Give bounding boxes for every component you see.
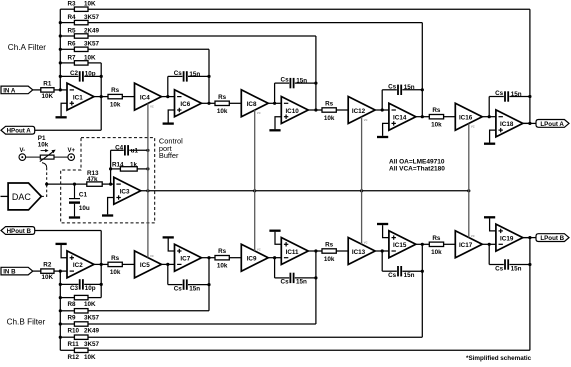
- wire: Ch.B first feedback vertical (HPout B to IC2 output, C3, R8): [100, 231, 103, 298]
- svg-text:10K: 10K: [84, 354, 96, 361]
- wire: IC12 output to IC14 inverting input: [375, 108, 389, 111]
- wire: R8 feedback row: [88, 297, 101, 299]
- wire: R1 to IC1 inverting input: [54, 89, 67, 91]
- ground (IC2 non-inverting input): [56, 243, 68, 258]
- wire: control node to R13: [47, 183, 87, 186]
- junction dots on Ch.A summing bus: [59, 21, 62, 92]
- resistor Rs 10k (Ch.A stage 3): [316, 101, 336, 122]
- resistor R2 10K: [41, 262, 54, 282]
- svg-text:Rs: Rs: [325, 101, 334, 108]
- wire: Ch.B stage 3 feedback vertical (IC15 output to ladder): [421, 244, 423, 337]
- wire: IC6 output to feedback vertical: [201, 102, 210, 105]
- svg-text:R4: R4: [68, 14, 77, 21]
- svg-text:10k: 10k: [324, 256, 335, 263]
- wire: Cs left vertical at IC15 input: [381, 251, 383, 271]
- svg-text:HPout A: HPout A: [7, 128, 32, 135]
- wire: VCA control vertical to IC8/IC9: [254, 110, 256, 251]
- wire: Ch.A summing bus vertical (IC1 inverting node): [59, 9, 61, 90]
- svg-text:vc: vc: [364, 118, 368, 122]
- svg-text:Cs: Cs: [174, 70, 183, 77]
- resistor R9 3K57 (Ch.B feedback ladder): [60, 309, 99, 322]
- wire: IC18 output to LPout A: [523, 122, 536, 124]
- svg-text:IC13: IC13: [352, 249, 366, 256]
- svg-text:R11: R11: [68, 341, 80, 348]
- svg-text:Ch.B Filter: Ch.B Filter: [7, 318, 46, 327]
- wire: R7 feedback row: [88, 62, 101, 64]
- capacitor Cs 15n (IC15 integrator): [382, 266, 422, 279]
- junction: Cs into Ch.B stage 2 feedback vertical: [314, 276, 317, 279]
- capacitor C2 10p (IC1 feedback): [60, 70, 101, 82]
- wire: Rs to IC4 input: [122, 96, 134, 98]
- dashed box: control port buffer boundary: [61, 138, 155, 223]
- wire: IC17 output to IC19 inverting input: [482, 243, 496, 246]
- op-amp IC2 (LME49710 summing amp): [67, 251, 94, 278]
- svg-text:Rs: Rs: [432, 235, 441, 242]
- svg-text:15n: 15n: [404, 84, 415, 91]
- svg-text:R6: R6: [68, 41, 77, 48]
- resistor R5 2K49 (Ch.A feedback ladder): [60, 27, 99, 38]
- resistor R10 2K49 (Ch.B feedback ladder): [60, 322, 99, 335]
- svg-text:V-: V-: [19, 148, 25, 154]
- svg-text:Buffer: Buffer: [159, 151, 179, 160]
- svg-text:V+: V+: [67, 148, 75, 154]
- wire: R13 to IC3 inverting input: [102, 183, 114, 186]
- wire: stage 2 feedback vertical (ladder to IC10 output): [315, 36, 317, 110]
- junction: Cs into Ch.B stage 4 feedback vertical: [528, 263, 531, 266]
- capacitor C4 u1: [111, 144, 148, 155]
- svg-text:C1: C1: [79, 192, 88, 199]
- resistor R12 10K (Ch.B feedback ladder): [60, 348, 96, 361]
- svg-text:Rs: Rs: [111, 255, 120, 262]
- svg-text:vc: vc: [257, 247, 261, 251]
- op-amp IC1 (LME49710 summing amp): [67, 83, 94, 110]
- svg-text:vc: vc: [150, 104, 154, 108]
- svg-text:15n: 15n: [404, 272, 415, 279]
- svg-text:IC15: IC15: [393, 242, 407, 249]
- Control port Buffer label: [159, 137, 183, 160]
- ground (C1): [69, 216, 80, 218]
- svg-text:vc: vc: [150, 254, 154, 258]
- input port IN A: [1, 86, 33, 94]
- op-amp IC3 (control buffer): [114, 177, 141, 204]
- svg-text:IN A: IN A: [3, 87, 16, 94]
- svg-text:LPout B: LPout B: [540, 235, 564, 242]
- wire: IC19 output to LPout B: [523, 237, 536, 239]
- op-amp IC14 (LME49710 integrator): [389, 103, 416, 130]
- wire: R2 to IC2 inverting input: [54, 270, 67, 272]
- wire: IC4 output to IC6 inverting input: [161, 95, 174, 98]
- svg-text:15n: 15n: [296, 78, 307, 85]
- svg-text:47k: 47k: [87, 176, 98, 183]
- svg-text:R14: R14: [112, 161, 124, 168]
- wire: IC2 output to Rs, junction at feedback vertical: [94, 263, 108, 266]
- capacitor Cs 15n (IC18 integrator): [489, 90, 530, 102]
- svg-text:10k: 10k: [431, 249, 442, 256]
- svg-text:IC3: IC3: [120, 189, 130, 196]
- capacitor Cs 15n (IC7 integrator): [168, 279, 209, 292]
- wire: IN B to R2: [33, 270, 41, 272]
- wire: Rs to next VCA: [336, 109, 348, 111]
- svg-text:IC16: IC16: [459, 115, 473, 122]
- ground (IC14 non-inverting input): [377, 123, 389, 138]
- wire: P1 wiper (dashed) to DAC node: [42, 163, 47, 185]
- svg-text:Rs: Rs: [432, 107, 441, 114]
- wire: R12 feedback row: [88, 349, 530, 351]
- ground (IC19 non-inverting input): [484, 216, 496, 231]
- junction: Cs into Ch.B stage 3 feedback vertical: [421, 270, 424, 273]
- svg-text:R1: R1: [43, 80, 52, 87]
- capacitor Cs 15n (IC19 integrator): [489, 259, 530, 272]
- wire: VCA control vertical to IC4/IC5: [147, 103, 149, 257]
- svg-text:Cs: Cs: [388, 83, 397, 90]
- wire: IC10 output to feedback vertical: [308, 108, 317, 111]
- ground (IC10 non-inverting input): [269, 117, 281, 132]
- output port LPout B: [536, 234, 569, 242]
- svg-text:Cs: Cs: [495, 265, 504, 272]
- wire: Ch.B summing bus vertical (IC2 inverting node): [59, 271, 61, 350]
- wire: IC1 output to Rs, junction at feedback vertical: [94, 95, 108, 98]
- resistor R4 3K57 (Ch.A feedback ladder): [60, 14, 99, 25]
- op-amp IC10 (LME49710 integrator): [281, 97, 308, 124]
- wire: R6 feedback row: [88, 48, 209, 50]
- svg-text:10k: 10k: [110, 269, 121, 276]
- output port HPout A: [1, 126, 35, 134]
- ground (IC11 non-inverting input): [269, 230, 281, 245]
- svg-text:10k: 10k: [324, 115, 335, 122]
- wire: IC7 output to feedback vertical: [201, 256, 210, 259]
- op-amp IC7 (LME49710 integrator): [175, 244, 202, 271]
- resistor Rs 10k (Ch.B stage 2): [209, 248, 229, 269]
- svg-text:Rs: Rs: [325, 242, 334, 249]
- svg-text:All OA=LME49710: All OA=LME49710: [389, 159, 445, 166]
- annotation: simplified schematic note: [466, 355, 532, 362]
- wire: Rs to next VCA: [229, 102, 241, 104]
- svg-text:15n: 15n: [511, 265, 522, 272]
- wire: VCA control vertical to IC16/IC17: [468, 124, 470, 238]
- node: control summing node: [45, 183, 48, 186]
- ground (IC6 non-inverting input): [163, 110, 175, 125]
- wire: R11 feedback row: [88, 336, 422, 338]
- svg-text:vc: vc: [471, 234, 475, 238]
- wire: IC5 output to IC7 inverting input: [161, 263, 174, 266]
- svg-text:R3: R3: [68, 1, 77, 8]
- svg-text:Cs: Cs: [281, 77, 290, 84]
- wire: IC18 output to feedback vertical: [523, 122, 532, 125]
- svg-text:IC7: IC7: [180, 256, 190, 263]
- svg-text:10u: 10u: [79, 205, 90, 212]
- svg-text:vc: vc: [471, 125, 475, 129]
- resistor R14 1k: [111, 161, 148, 171]
- wire: stage 1 feedback vertical (ladder to IC6 output): [208, 49, 210, 103]
- terminal V- (P1 CCW end): [19, 148, 26, 160]
- svg-text:10K: 10K: [84, 54, 96, 61]
- capacitor Cs 15n (IC10 integrator): [275, 77, 316, 89]
- wire: IC19 output to feedback vertical: [523, 236, 532, 239]
- wire: R10 feedback row: [88, 323, 316, 325]
- svg-text:Ch.A Filter: Ch.A Filter: [8, 43, 46, 52]
- junction dots on Ch.B summing bus: [59, 270, 62, 339]
- DAC block: [8, 183, 41, 210]
- resistor R7 10K (Ch.A feedback ladder): [60, 54, 96, 65]
- wire: Cs left vertical at IC18 input: [488, 97, 490, 117]
- output port HPout B: [1, 227, 35, 235]
- op-amp IC6 (LME49710 integrator): [175, 90, 202, 117]
- VCA IC12 (That2180): [348, 97, 375, 124]
- resistor R1 10K: [41, 80, 54, 100]
- wire: IC15 output to feedback vertical: [416, 243, 424, 246]
- annotation: device types: [389, 159, 445, 173]
- op-amp IC18 (LME49710 integrator): [496, 110, 523, 137]
- svg-text:15n: 15n: [511, 91, 522, 98]
- wire: IC8 output to IC10 inverting input: [268, 102, 281, 105]
- wire: Ch.B stage 2 feedback vertical (IC11 output to ladder): [315, 251, 317, 324]
- resistor Rs 10k (Ch.B stage 3): [316, 242, 336, 263]
- wire: Ch.B stage 4 feedback vertical (IC19 output to ladder): [529, 238, 531, 351]
- op-amp IC15 (LME49710 integrator): [389, 231, 416, 258]
- svg-text:15n: 15n: [189, 285, 200, 292]
- ground (IC15 non-inverting input): [377, 223, 389, 238]
- svg-text:10k: 10k: [217, 108, 228, 115]
- wire: HPout B lead: [35, 230, 102, 232]
- svg-text:IC5: IC5: [140, 262, 150, 269]
- svg-text:Cs: Cs: [495, 90, 504, 97]
- resistor R6 3K57 (Ch.A feedback ladder): [60, 41, 99, 52]
- svg-text:R8: R8: [68, 301, 77, 308]
- wire: Cs left vertical at IC7 input: [167, 264, 169, 284]
- VCA IC13 (That2180): [348, 238, 375, 265]
- wire: Rs to next VCA: [229, 257, 241, 259]
- wire: IC14 output to feedback vertical: [416, 115, 424, 118]
- resistor R11 3K57 (Ch.B feedback ladder): [60, 335, 99, 348]
- op-amp IC19 (LME49710 integrator): [496, 224, 523, 251]
- junction: Cs into stage 3 feedback vertical: [421, 88, 424, 91]
- svg-text:10k: 10k: [38, 141, 49, 148]
- junction: Cs into Ch.B stage 1 feedback vertical: [207, 283, 210, 286]
- capacitor Cs 15n (IC6 integrator): [168, 70, 209, 82]
- svg-text:Cs: Cs: [281, 279, 290, 286]
- svg-text:1k: 1k: [130, 161, 138, 168]
- svg-text:15n: 15n: [189, 71, 200, 78]
- svg-text:All VCA=That2180: All VCA=That2180: [389, 166, 445, 173]
- Ch.B Filter section label: [7, 318, 46, 327]
- wire: IC9 output to IC11 inverting input: [268, 256, 281, 259]
- svg-text:LPout A: LPout A: [540, 121, 564, 128]
- svg-text:HPout B: HPout B: [7, 228, 32, 235]
- VCA IC9 (That2180): [241, 244, 268, 271]
- svg-text:Rs: Rs: [111, 87, 120, 94]
- wire: Rs to next VCA: [444, 243, 456, 245]
- svg-text:u1: u1: [131, 148, 139, 155]
- wire: Rs to next VCA: [444, 116, 456, 118]
- svg-text:C2: C2: [70, 70, 79, 77]
- wire: Cs left vertical at IC11 input: [274, 258, 276, 278]
- wire: VCA control bus (IC3 output): [141, 189, 471, 192]
- svg-text:R10: R10: [68, 328, 80, 335]
- svg-text:IC4: IC4: [140, 94, 150, 101]
- junction: Cs into stage 1 feedback vertical: [207, 75, 210, 78]
- svg-text:3K57: 3K57: [84, 341, 100, 348]
- capacitor Cs 15n (IC11 integrator): [275, 273, 316, 286]
- wire: R4 feedback row: [88, 22, 422, 24]
- svg-text:vc: vc: [364, 241, 368, 245]
- svg-text:C4: C4: [115, 144, 124, 151]
- svg-text:IC18: IC18: [500, 121, 514, 128]
- VCA IC8 (That2180): [241, 90, 268, 117]
- svg-text:R2: R2: [43, 262, 52, 269]
- resistor Rs 10k (Ch.A stage 4): [422, 107, 443, 128]
- wire: Cs left vertical at IC19 input: [488, 244, 490, 264]
- resistor Rs 10k (Ch.A stage 1): [108, 87, 122, 108]
- svg-text:IC17: IC17: [459, 242, 473, 249]
- svg-text:IN B: IN B: [3, 269, 16, 276]
- svg-text:15n: 15n: [296, 279, 307, 286]
- svg-text:R5: R5: [68, 27, 77, 34]
- wire: Ch.A first feedback vertical (R7/C2 to IC1 output, HPout A): [100, 63, 103, 130]
- output port LPout A: [536, 120, 569, 128]
- input port IN B: [1, 267, 33, 275]
- svg-text:*Simplified schematic: *Simplified schematic: [466, 355, 532, 362]
- wire: Rs to IC5 input: [122, 263, 134, 265]
- svg-text:C3: C3: [70, 285, 79, 292]
- resistor R3 10K (Ch.A feedback ladder): [60, 1, 96, 12]
- resistor Rs 10k (Ch.A stage 2): [209, 94, 229, 115]
- svg-text:R12: R12: [68, 354, 80, 361]
- wire: DAC output (dashed) to control node: [41, 184, 46, 196]
- svg-text:IC2: IC2: [73, 262, 83, 269]
- junction: Cs into stage 2 feedback vertical: [314, 82, 317, 85]
- svg-text:10p: 10p: [85, 71, 96, 78]
- svg-text:10k: 10k: [217, 263, 228, 270]
- resistor Rs 10k (Ch.B stage 1): [108, 255, 122, 276]
- wire: IC11 output to feedback vertical: [308, 249, 317, 252]
- svg-text:IC10: IC10: [285, 108, 299, 115]
- wire: IC16 output to IC18 inverting input: [482, 115, 496, 118]
- wire: stage 3 feedback vertical (ladder to IC14 output): [421, 23, 423, 117]
- wire: IN A to R1: [33, 89, 41, 91]
- svg-text:IC9: IC9: [247, 256, 257, 263]
- wire: Rs to next VCA: [336, 250, 348, 252]
- svg-text:R9: R9: [68, 314, 77, 321]
- svg-text:IC6: IC6: [180, 101, 190, 108]
- VCA IC17 (That2180): [455, 231, 482, 258]
- capacitor C1 10u (electrolytic): [69, 184, 90, 216]
- wire: DAC input stub: [1, 195, 9, 197]
- svg-text:IC14: IC14: [393, 115, 407, 122]
- junction: Cs into stage 4 feedback vertical: [528, 95, 531, 98]
- svg-text:2K49: 2K49: [84, 27, 100, 34]
- svg-text:Cs: Cs: [174, 285, 183, 292]
- svg-text:Rs: Rs: [218, 94, 227, 101]
- svg-text:IC1: IC1: [73, 94, 83, 101]
- wire: Ch.B stage 1 feedback vertical (IC7 output to ladder): [208, 258, 210, 311]
- ground (IC3 non-inverting input): [102, 198, 114, 217]
- svg-text:3K57: 3K57: [84, 14, 100, 21]
- wire: IC3 feedback left vertical: [109, 150, 112, 184]
- svg-text:Rs: Rs: [218, 248, 227, 255]
- svg-text:10k: 10k: [110, 101, 121, 108]
- svg-text:IC11: IC11: [286, 249, 299, 256]
- svg-text:Cs: Cs: [388, 272, 397, 279]
- wire: VCA control vertical to IC12/IC13: [361, 117, 363, 244]
- svg-text:IC12: IC12: [352, 108, 366, 115]
- svg-text:3K57: 3K57: [84, 314, 100, 321]
- svg-text:10K: 10K: [42, 93, 54, 100]
- resistor R8 10K (Ch.B feedback ladder): [60, 295, 96, 308]
- svg-text:10p: 10p: [85, 285, 96, 292]
- svg-text:vc: vc: [257, 111, 261, 115]
- VCA IC4 (That2180): [135, 83, 162, 110]
- svg-text:DAC: DAC: [12, 192, 32, 202]
- ground (IC1 non-inverting input): [56, 103, 68, 118]
- VCA IC5 (That2180): [135, 251, 162, 278]
- VCA IC16 (That2180): [455, 103, 482, 130]
- svg-text:IC8: IC8: [247, 101, 257, 108]
- wire: Cs left vertical at IC10 input: [274, 83, 276, 103]
- wire: Cs left vertical at IC14 input: [381, 90, 383, 110]
- capacitor Cs 15n (IC14 integrator): [382, 83, 422, 95]
- svg-text:10K: 10K: [84, 301, 96, 308]
- svg-text:10K: 10K: [42, 274, 54, 281]
- resistor Rs 10k (Ch.B stage 4): [422, 235, 443, 256]
- potentiometer P1 10k: [26, 135, 68, 161]
- wire: Cs left vertical at IC6 input: [167, 76, 169, 96]
- wire: HPout A lead: [35, 129, 102, 131]
- svg-text:10k: 10k: [431, 122, 442, 129]
- Ch.A Filter section label: [8, 43, 46, 52]
- wire: IC13 output to IC15 inverting input: [375, 249, 389, 252]
- wire: R3 feedback row: [88, 8, 530, 10]
- svg-text:R7: R7: [68, 54, 77, 61]
- ground (IC7 non-inverting input): [163, 236, 175, 251]
- ground (IC18 non-inverting input): [484, 130, 496, 145]
- svg-text:2K49: 2K49: [84, 328, 100, 335]
- svg-text:IC19: IC19: [500, 235, 514, 242]
- wire: stage 4 feedback vertical (ladder to IC18 output): [529, 9, 531, 123]
- op-amp IC11 (LME49710 integrator): [281, 238, 308, 265]
- capacitor C3 10p (IC2 feedback): [60, 279, 101, 292]
- junction dots: IC3 feedback at output vertical: [146, 149, 149, 171]
- wire: R5 feedback row: [88, 35, 316, 37]
- terminal V+ (P1 CW end): [67, 148, 75, 160]
- svg-text:10K: 10K: [84, 1, 96, 8]
- wire: R9 feedback row: [88, 310, 209, 312]
- resistor R13 47k: [87, 170, 102, 186]
- svg-text:3K57: 3K57: [84, 41, 100, 48]
